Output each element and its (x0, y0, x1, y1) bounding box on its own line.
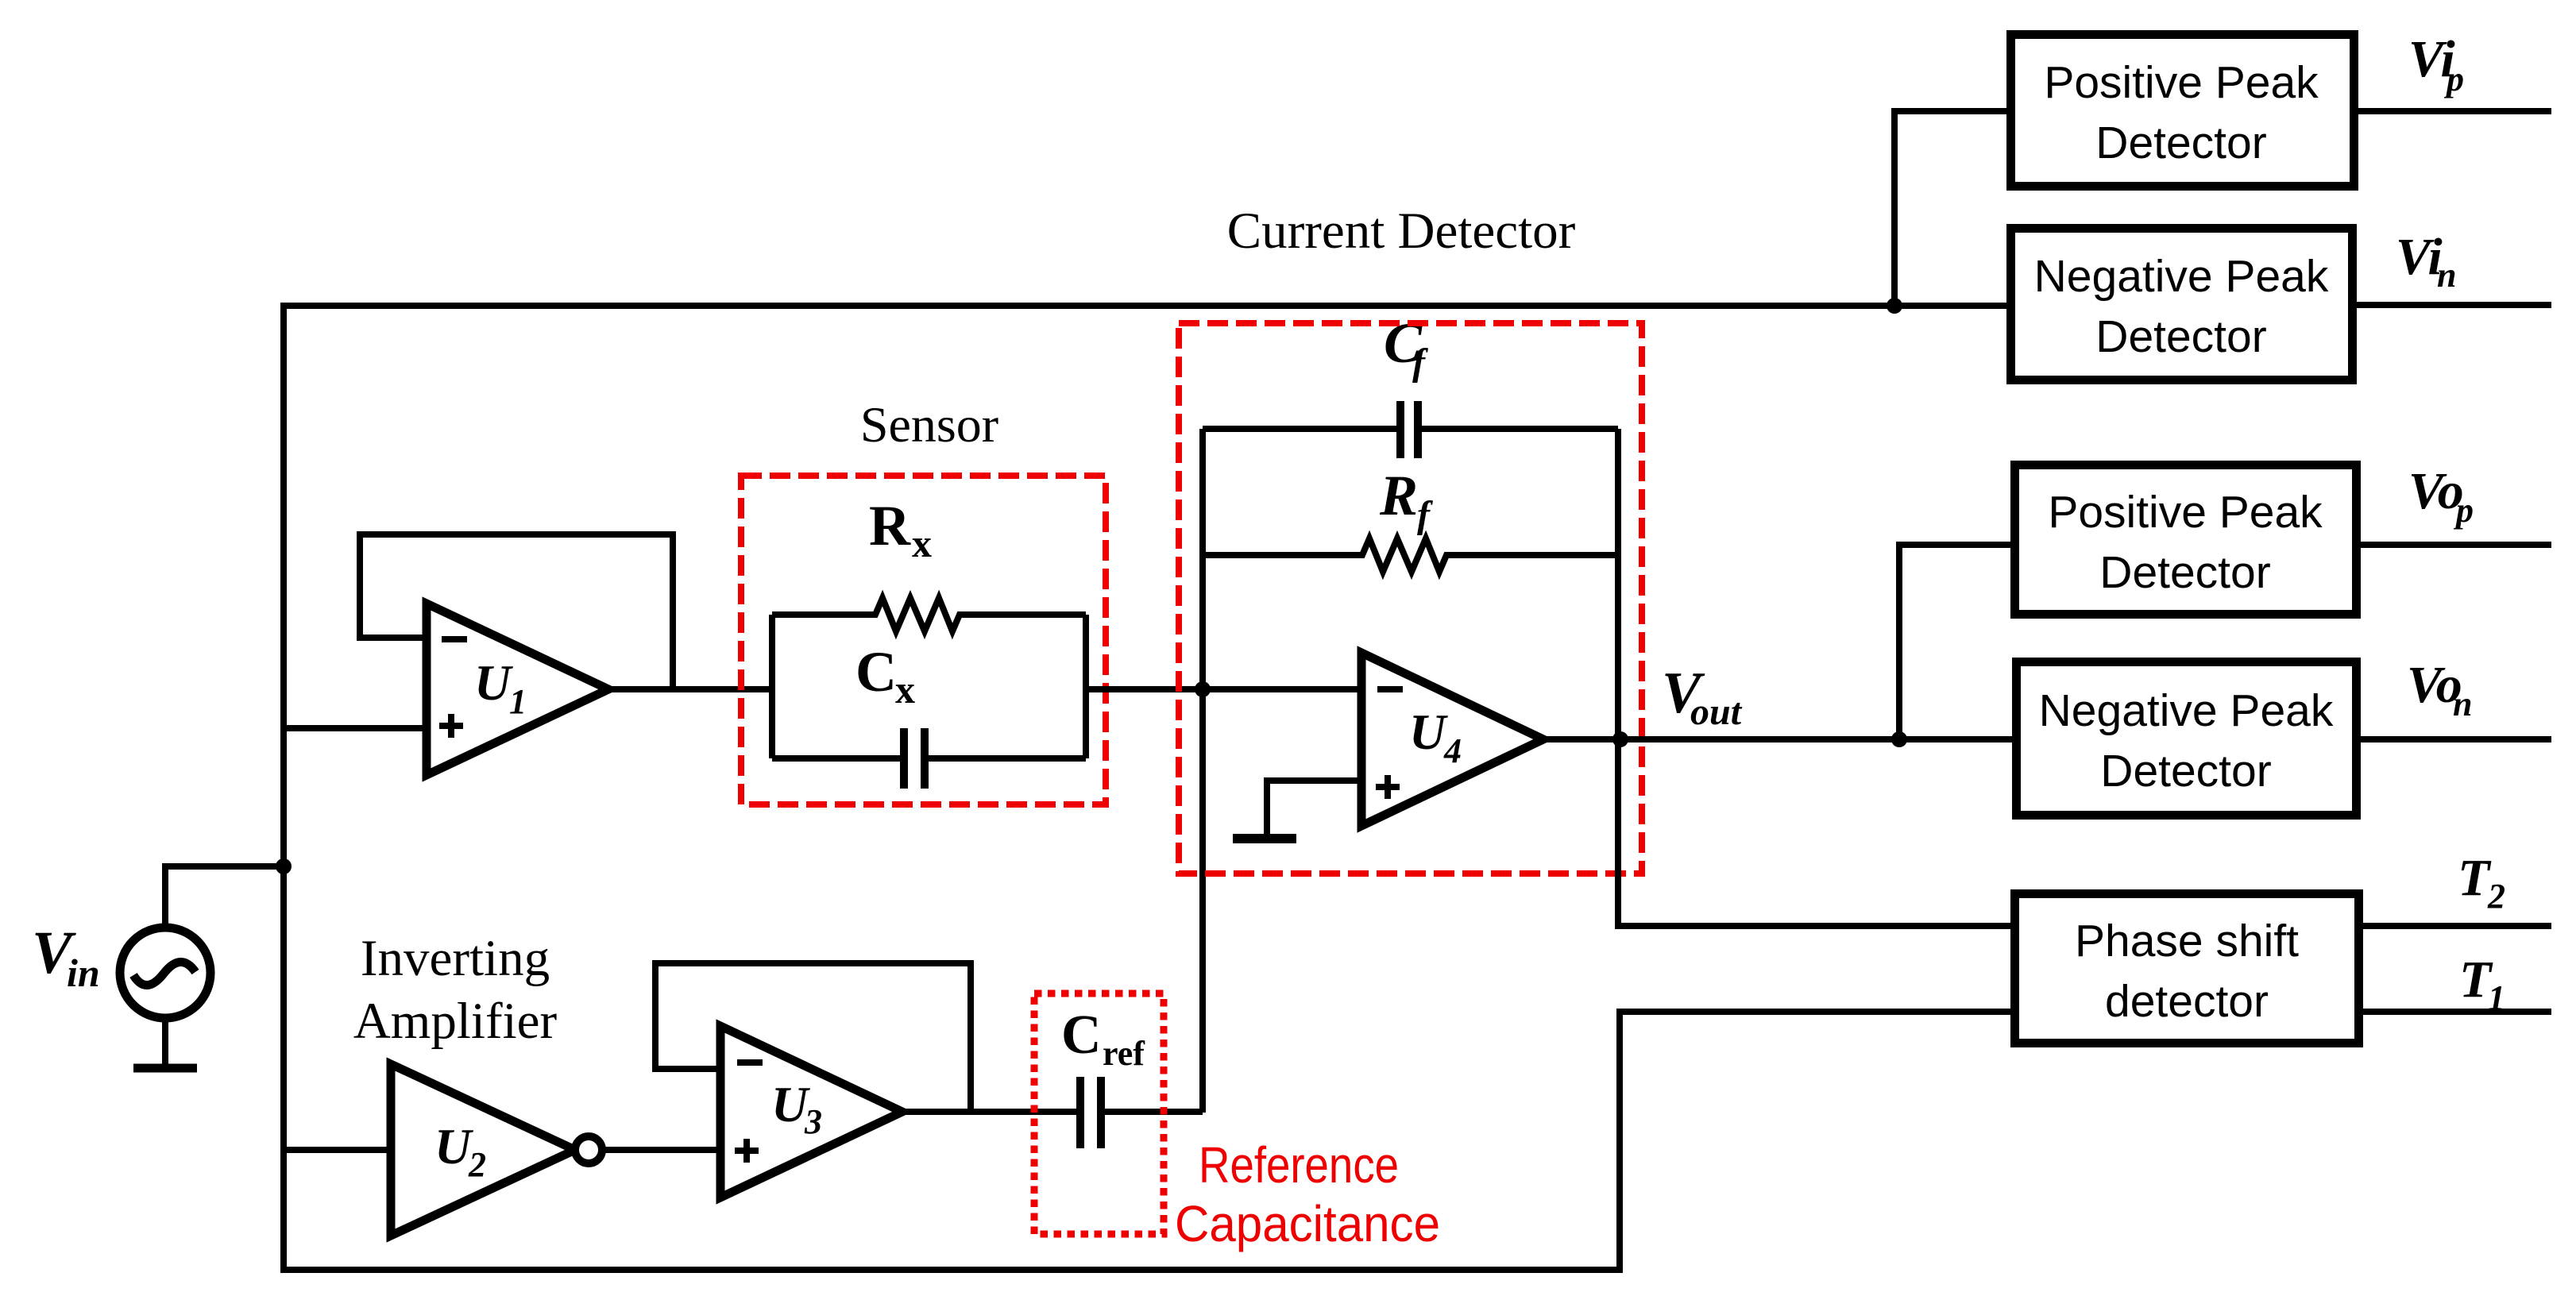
svg-text:Phase shift: Phase shift (2075, 916, 2299, 966)
node: junction of top net and Vi peak-detector branch (1887, 298, 1902, 314)
wire: bottom net from left bus to Phase shift detector second input (284, 1012, 2010, 1270)
red dashed box: Current Detector (1179, 323, 1642, 874)
sensor parallel network: right bar (1083, 615, 1089, 758)
node: Vout node (1612, 731, 1628, 747)
svg-text:in: in (67, 951, 100, 995)
svg-text:R: R (869, 494, 911, 557)
op-amp U4 (1361, 653, 1543, 826)
svg-text:Capacitance: Capacitance (1175, 1195, 1440, 1252)
svg-text:2: 2 (2487, 877, 2505, 916)
wire: U3 feedback loop (655, 963, 971, 1112)
svg-text:n: n (2453, 685, 2472, 723)
ground: Vin ground bar (133, 1064, 197, 1073)
capacitor Cx branch wire (772, 755, 900, 762)
svg-text:R: R (1379, 464, 1418, 527)
svg-text:detector: detector (2105, 976, 2269, 1027)
svg-text:1: 1 (2488, 978, 2505, 1017)
wire: U4 non-inverting input to ground (1267, 781, 1361, 835)
block: Positive Peak Detector (Vo) (2015, 465, 2357, 615)
node: junction Vin / left bus (276, 858, 292, 874)
wire: U2 output to U3 non-inverting input (602, 1147, 720, 1153)
block: Negative Peak Detector (Vi) (2011, 229, 2353, 380)
svg-text:Inverting: Inverting (361, 930, 550, 987)
wire: Vin top lead to junction on left bus (165, 866, 284, 929)
inverter U2 (391, 1064, 575, 1236)
svg-text:U: U (434, 1118, 473, 1174)
block: Negative Peak Detector (Vo) (2017, 662, 2357, 816)
red dashed box: Sensor (741, 476, 1106, 804)
svg-text:Negative Peak: Negative Peak (2039, 685, 2334, 736)
svg-text:Current Detector: Current Detector (1227, 202, 1576, 260)
wire: branch up to Positive Peak Detector (Vi) input (1894, 111, 2006, 306)
svg-text:x: x (912, 521, 932, 565)
svg-text:ref: ref (1103, 1034, 1145, 1073)
svg-text:out: out (1690, 691, 1743, 733)
wire: U1 non-inverting input from left bus (284, 725, 427, 731)
wire: Vin bottom lead (162, 1020, 168, 1068)
wire: U1 output to sensor network (604, 686, 772, 692)
svg-text:Detector: Detector (2095, 118, 2266, 168)
svg-text:p: p (2443, 60, 2464, 98)
inverter U2 bubble (575, 1136, 602, 1163)
wire: T2 output (2363, 923, 2551, 929)
svg-text:Sensor: Sensor (860, 396, 998, 453)
wire: top horizontal net from left bus to Negative Peak Detector (Vi) (280, 303, 2006, 309)
red dotted box: Reference Capacitance (1034, 993, 1164, 1234)
wire: Vout down to Phase shift detector first input (1618, 739, 2010, 926)
wire: feedback left vertical (Cf/Rf to input node and down to Cref) (1199, 429, 1206, 1113)
svg-text:Vi: Vi (2396, 228, 2443, 286)
wire: Vo_p output (2361, 542, 2551, 548)
wire: main left vertical bus from top wire down to bottom wire (280, 303, 287, 1273)
resistor Rx branch wire + zigzag (772, 598, 1086, 631)
svg-text:x: x (895, 667, 915, 712)
svg-text:n: n (2437, 256, 2456, 295)
capacitor Cref plates (1076, 1077, 1084, 1148)
svg-text:2: 2 (468, 1145, 486, 1184)
wire: Vi_p output (2358, 108, 2551, 114)
capacitor Cx plates (900, 728, 908, 789)
svg-text:4: 4 (1443, 731, 1462, 770)
svg-text:Positive Peak: Positive Peak (2048, 487, 2323, 538)
svg-text:T: T (2458, 849, 2492, 907)
svg-text:Reference: Reference (1199, 1136, 1399, 1194)
wire: sensor output to U4 inverting input (1086, 686, 1361, 692)
svg-text:Detector: Detector (2099, 547, 2270, 598)
svg-text:Detector: Detector (2100, 746, 2271, 796)
wire: Vo_n output (2361, 736, 2551, 742)
svg-text:C: C (1061, 1005, 1102, 1066)
capacitor Cf plates (1396, 401, 1404, 458)
svg-text:1: 1 (509, 682, 527, 721)
node: junction Vout / Vo peak-detector branch (1891, 731, 1907, 747)
wire: U4 output to Negative Peak Detector (Vo) (1541, 736, 2012, 742)
wire: feedback right vertical down to output node (1615, 429, 1621, 739)
svg-text:Positive Peak: Positive Peak (2044, 57, 2319, 108)
svg-text:C: C (855, 640, 897, 704)
wire: U2 input from left bus (284, 1147, 391, 1153)
block: Positive Peak Detector (Vi) (2011, 35, 2354, 187)
block: Phase shift detector (2015, 894, 2359, 1043)
svg-text:U: U (474, 654, 513, 711)
resistor Rf branch wire + zigzag (1203, 538, 1618, 572)
svg-text:Negative Peak: Negative Peak (2034, 251, 2329, 302)
op-amp U3 (720, 1026, 902, 1198)
wire: U1 feedback loop (output to inverting input) (360, 534, 673, 689)
wire: U3 output to Cref (898, 1109, 1076, 1115)
svg-text:U: U (1409, 704, 1448, 760)
svg-text:p: p (2453, 491, 2474, 530)
wire: branch up to Positive Peak Detector (Vo) (1899, 545, 2010, 739)
wire: Cf feedback branch (1203, 426, 1397, 432)
wire: T1 output (2363, 1009, 2551, 1015)
node: junction at inverting input column (1195, 681, 1211, 697)
sensor parallel network: left bar (769, 615, 775, 758)
svg-text:3: 3 (804, 1102, 822, 1141)
ground: U4 ground bar (1233, 834, 1296, 843)
svg-text:Amplifier: Amplifier (353, 993, 558, 1050)
wire: Vi_n output (2357, 302, 2551, 308)
svg-text:Detector: Detector (2095, 311, 2266, 362)
op-amp U1 (427, 604, 608, 775)
source Vin: AC voltage source circle with sine (120, 928, 210, 1018)
